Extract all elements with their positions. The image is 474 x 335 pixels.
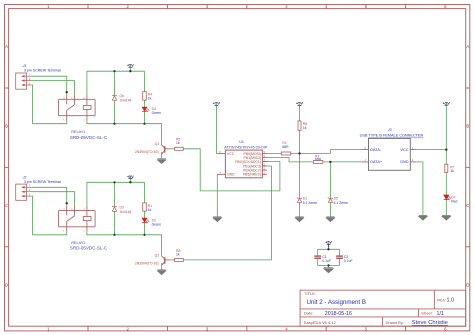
- svg-text:DATA+: DATA+: [370, 160, 383, 164]
- svg-text:SRD-05VDC-SL-C: SRD-05VDC-SL-C: [70, 245, 108, 250]
- svg-text:1N4148: 1N4148: [120, 98, 132, 102]
- svg-text:Red: Red: [451, 199, 457, 203]
- svg-text:D: D: [466, 282, 469, 287]
- svg-text:J3: J3: [387, 128, 392, 132]
- svg-text:1k: 1k: [148, 97, 152, 101]
- svg-text:Green: Green: [152, 111, 162, 115]
- svg-text:VCC: VCC: [400, 148, 408, 152]
- svg-text:1N4148: 1N4148: [120, 210, 132, 214]
- svg-text:GND: GND: [400, 160, 409, 164]
- svg-text:+5V: +5V: [213, 101, 221, 106]
- svg-text:1k: 1k: [450, 169, 454, 173]
- svg-text:A: A: [5, 44, 8, 49]
- svg-text:3 pin SCREW Terminal: 3 pin SCREW Terminal: [24, 180, 61, 184]
- svg-text:REV:: REV:: [437, 297, 446, 302]
- svg-text:USB TYPE B FEMALE CONNECTER: USB TYPE B FEMALE CONNECTER: [360, 134, 424, 138]
- svg-text:1/1: 1/1: [437, 311, 444, 317]
- svg-text:C: C: [5, 203, 8, 208]
- svg-text:EasyEDA V5.4.12: EasyEDA V5.4.12: [304, 320, 337, 325]
- svg-text:RELAY1: RELAY1: [71, 130, 85, 134]
- svg-text:PB2(SCK/ADC1): PB2(SCK/ADC1): [235, 160, 261, 164]
- svg-text:D6: D6: [120, 94, 124, 98]
- svg-text:1k: 1k: [176, 141, 180, 145]
- svg-text:Q2: Q2: [155, 254, 160, 258]
- svg-text:D: D: [5, 282, 8, 287]
- svg-text:D3: D3: [120, 205, 124, 209]
- svg-text:5.1 Zener: 5.1 Zener: [334, 201, 349, 205]
- svg-text:+5V: +5V: [296, 101, 304, 106]
- svg-text:TITLE:: TITLE:: [304, 291, 316, 296]
- svg-text:Steve Christie: Steve Christie: [412, 320, 448, 326]
- svg-text:2N3904(TO-92): 2N3904(TO-92): [135, 150, 159, 154]
- svg-text:1k: 1k: [148, 208, 152, 212]
- svg-text:2N3904(TO-92): 2N3904(TO-92): [135, 262, 159, 266]
- svg-text:RELAY2: RELAY2: [71, 241, 85, 245]
- svg-text:+5V: +5V: [325, 241, 332, 245]
- svg-text:1.0: 1.0: [447, 298, 455, 304]
- svg-text:B: B: [5, 124, 8, 129]
- svg-text:SRD-05VDC-SL-C: SRD-05VDC-SL-C: [70, 135, 108, 140]
- svg-text:Drawn By:: Drawn By:: [386, 320, 404, 325]
- svg-text:Date:: Date:: [304, 311, 314, 316]
- svg-text:+5V: +5V: [127, 63, 134, 67]
- svg-text:+5V: +5V: [127, 175, 134, 179]
- svg-text:Sheet:: Sheet:: [421, 311, 433, 316]
- svg-text:Unit 2 - Assignment B: Unit 2 - Assignment B: [307, 299, 367, 306]
- svg-text:3 pin SCREW Terminal: 3 pin SCREW Terminal: [24, 68, 61, 72]
- svg-text:PB5(NRES): PB5(NRES): [243, 173, 261, 177]
- svg-text:VCC: VCC: [227, 152, 235, 156]
- svg-text:5.1 Zener: 5.1 Zener: [303, 201, 318, 205]
- svg-text:+5V: +5V: [443, 100, 451, 105]
- svg-text:DATA-: DATA-: [370, 148, 382, 152]
- svg-text:ATTINY45/TINY45-20-DIP: ATTINY45/TINY45-20-DIP: [224, 145, 268, 149]
- svg-text:B: B: [466, 124, 469, 129]
- svg-text:Green: Green: [152, 223, 162, 227]
- svg-text:68R: 68R: [282, 145, 289, 149]
- svg-text:0.1uF: 0.1uF: [344, 259, 353, 263]
- svg-text:68R: 68R: [315, 158, 322, 162]
- svg-text:Q1: Q1: [155, 142, 160, 146]
- svg-text:0.1uF: 0.1uF: [322, 259, 331, 263]
- svg-text:U1: U1: [239, 140, 244, 144]
- svg-text:C: C: [466, 203, 469, 208]
- svg-text:GND: GND: [227, 173, 235, 177]
- svg-text:2018-05-16: 2018-05-16: [325, 311, 352, 317]
- svg-text:1k: 1k: [303, 126, 307, 130]
- svg-text:A: A: [466, 44, 469, 49]
- svg-text:1k: 1k: [176, 253, 180, 257]
